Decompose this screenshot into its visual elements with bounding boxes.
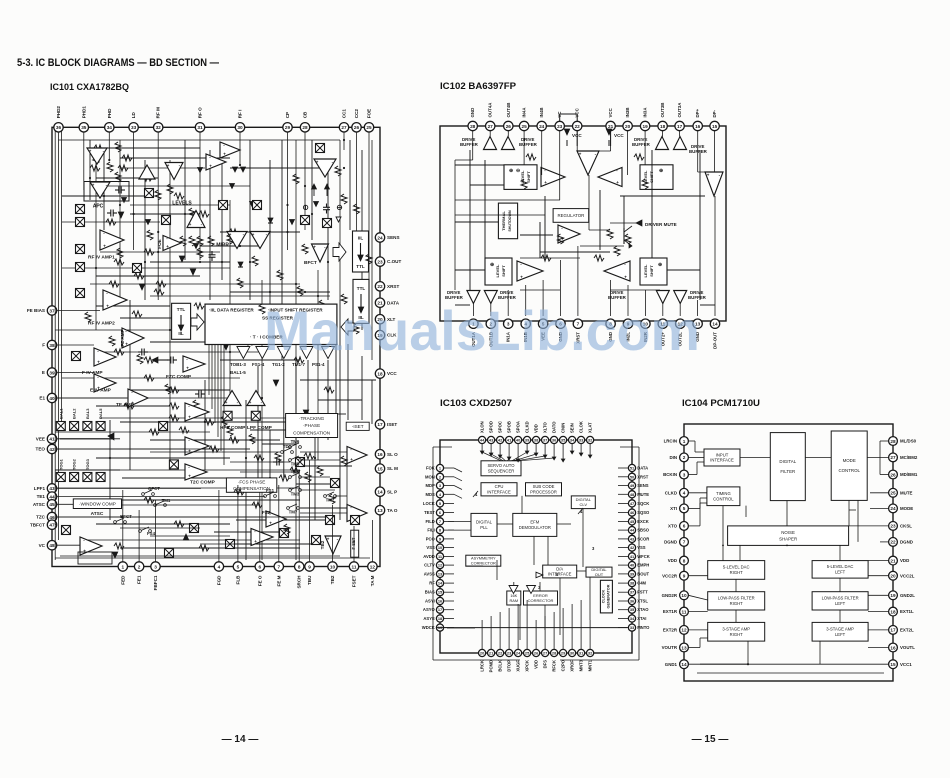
svg-text:3-STAGE AMP: 3-STAGE AMP: [826, 626, 854, 631]
pad xbox fset: [351, 516, 360, 525]
svg-text:TTL: TTL: [356, 264, 365, 269]
svg-text:SL M: SL M: [387, 466, 398, 471]
svg-text:14: 14: [377, 490, 383, 495]
svg-text:CLOCK: CLOCK: [602, 589, 606, 603]
svg-text:36: 36: [56, 125, 62, 130]
svg-text:1: 1: [121, 564, 124, 569]
svg-text:LEFT: LEFT: [835, 570, 846, 575]
svg-text:LEVELS: LEVELS: [172, 201, 192, 207]
svg-text:SHUTDOWN: SHUTDOWN: [508, 210, 512, 232]
svg-text:BIAS: BIAS: [425, 590, 435, 595]
svg-text:CC2: CC2: [354, 109, 359, 119]
IC103 pin 32 XLAT: [587, 422, 594, 444]
svg-text:FILD: FILD: [425, 519, 434, 524]
IC102 pin 25 IN4A: [519, 107, 528, 131]
svg-text:XTI: XTI: [670, 506, 677, 511]
svg-text:FOE: FOE: [367, 109, 372, 118]
svg-text:IN4A: IN4A: [522, 107, 527, 118]
register output labels: [230, 362, 325, 375]
pad xbox td1: [296, 458, 305, 467]
IC102 pin 4 IN1B: [521, 319, 530, 342]
svg-text:TEST: TEST: [424, 510, 435, 515]
VCC label right: [606, 129, 624, 146]
svg-text:LOW-PASS FILTER: LOW-PASS FILTER: [822, 596, 859, 601]
svg-text:RAM: RAM: [509, 598, 518, 603]
svg-text:F: F: [42, 343, 45, 348]
svg-text:27: 27: [543, 651, 547, 656]
svg-text:BCLK: BCLK: [498, 660, 503, 672]
op-amp APC upper: [87, 148, 107, 164]
svg-text:IC104 PCM1710U: IC104 PCM1710U: [682, 398, 760, 409]
op-amp T2C COMP: [185, 464, 207, 480]
pad xbox mid: [145, 189, 154, 198]
svg-text:VC: VC: [39, 543, 46, 548]
IC104 pin 14 GND1: [665, 660, 689, 669]
IC101 pin 10 TB2: [328, 562, 337, 584]
svg-text:2: 2: [683, 455, 686, 460]
switch BFCT low: [142, 486, 161, 495]
IC101 pin 12 TA M: [368, 562, 377, 586]
svg-text:RIGHT: RIGHT: [730, 570, 743, 575]
svg-text:FBFC1: FBFC1: [153, 575, 158, 590]
svg-text:11: 11: [352, 564, 357, 569]
svg-text:FZC COMP: FZC COMP: [166, 374, 192, 380]
IC103 pin 6 TEST: [424, 509, 444, 516]
svg-text:BCKIN: BCKIN: [663, 472, 677, 477]
IC102 opamp left-top: [541, 168, 565, 187]
svg-text:T2C COMP: T2C COMP: [190, 480, 216, 486]
svg-text:ISET: ISET: [387, 422, 397, 427]
IC104 pin 27 MC/BM2: [889, 453, 918, 462]
switch TM1: [154, 498, 171, 506]
resistor midlow3: [179, 427, 189, 433]
svg-text:12: 12: [681, 628, 687, 633]
svg-text:FE O: FE O: [257, 575, 262, 586]
IC103 pin 34 SEIN: [569, 423, 576, 443]
svg-text:XTO: XTO: [668, 524, 678, 529]
IC104 pin 2 DIN: [669, 453, 688, 462]
svg-text:TEO: TEO: [36, 447, 46, 452]
svg-text:XPCK: XPCK: [525, 660, 530, 672]
svg-text:+: +: [167, 163, 170, 168]
svg-text:10: 10: [681, 593, 687, 598]
IC104 block LOW-PASS FILTER RIGHT: [708, 592, 765, 610]
svg-text:BAL3: BAL3: [85, 408, 90, 419]
svg-text:LRCIN: LRCIN: [664, 439, 677, 444]
svg-text:7: 7: [683, 540, 686, 545]
diode CB a: [312, 184, 317, 196]
svg-text:·WINDOW COMP: ·WINDOW COMP: [79, 501, 116, 506]
svg-text:FS2: FS2: [262, 510, 271, 515]
IC103 pin 27 DFS: [542, 649, 549, 668]
svg-text:DIGITAL: DIGITAL: [779, 459, 796, 464]
svg-text:SL O: SL O: [387, 452, 398, 457]
svg-text:32: 32: [156, 125, 162, 130]
pad xbox lower2: [190, 524, 199, 533]
svg-text:SHAPER: SHAPER: [779, 536, 797, 541]
IC104 pin 1 LRCIN: [664, 437, 689, 446]
IC102 opamp left-bottom: [517, 261, 543, 281]
block arrow into register right: [341, 319, 354, 335]
svg-text:VEE: VEE: [36, 436, 45, 441]
IC102 pin 11 OUT2+: [658, 319, 667, 346]
IC104 pin 5 XTI: [670, 504, 688, 513]
IC104 pin 17 EXT2L: [889, 626, 914, 635]
IC104 junction dots: [722, 545, 788, 666]
svg-text:SL P: SL P: [387, 489, 397, 494]
IC102 regulator box: [553, 209, 589, 223]
svg-text:⊕: ⊕: [659, 168, 663, 174]
svg-text:NOISE: NOISE: [781, 530, 795, 535]
capacitor td1: [273, 459, 283, 466]
svg-text:DFS: DFS: [543, 660, 548, 669]
svg-text:5: 5: [237, 564, 240, 569]
svg-text:BFCT: BFCT: [120, 514, 132, 519]
IC103 block SERVO AUTO SEQUENCER: [481, 461, 521, 476]
phase circle CB1: [303, 205, 307, 209]
label drive buffer BL2: [498, 290, 517, 300]
svg-text:INTERFACE: INTERFACE: [710, 458, 734, 463]
svg-text:VCC1: VCC1: [900, 662, 912, 667]
svg-text:CONTROL: CONTROL: [713, 497, 734, 502]
IC101 left edge wires: [55, 311, 327, 546]
svg-text:13: 13: [377, 508, 383, 513]
IC103 pin 13 AVSS: [424, 570, 444, 577]
IC103 pin 43 SPOD: [488, 421, 495, 443]
svg-text:RF IV AMP1: RF IV AMP1: [88, 255, 115, 261]
svg-text:+: +: [313, 245, 316, 250]
IC101 pin 47 TBFCT: [30, 520, 57, 529]
IC103 block DIGITAL PLL: [471, 513, 497, 536]
IC102 pin 2 OUT1B: [486, 319, 495, 347]
svg-text:48: 48: [49, 543, 55, 548]
pad xbox hpfcomp side: [159, 422, 168, 431]
svg-text:4: 4: [683, 491, 686, 496]
svg-text:11: 11: [682, 609, 687, 614]
IC103 pin 20 LRCK: [479, 649, 486, 671]
IC102 pin 14 DP-OUT: [710, 319, 719, 349]
IC104 pin 11 EXT1R: [663, 607, 689, 616]
svg-text:DP-OUT: DP-OUT: [713, 332, 718, 349]
IC104 pin 22 DGND: [889, 538, 913, 547]
IC103 pin 50 XRST: [628, 473, 648, 480]
svg-text:+: +: [103, 243, 106, 248]
resistor RF2 fb: [109, 281, 119, 287]
svg-text:15: 15: [712, 124, 718, 129]
IC104 pin 7 DGND: [664, 538, 688, 547]
IC102 extra wires: [455, 150, 715, 305]
pad xbox CB2: [323, 219, 332, 228]
IC104 pin 20 VCC2L: [889, 571, 915, 580]
block data register / input shift register: [205, 304, 337, 344]
svg-text:3: 3: [683, 472, 686, 477]
svg-text:22: 22: [377, 284, 383, 289]
label drive buffer TR1: [632, 137, 651, 147]
svg-text:27: 27: [341, 125, 347, 130]
IC104 block MODE CONTROL: [831, 431, 867, 500]
svg-text:IC103 CXD2507: IC103 CXD2507: [440, 398, 512, 409]
IC102 output triangle right: [705, 172, 723, 196]
op-amp FOE comp: [163, 236, 181, 251]
svg-text:RF O: RF O: [198, 107, 203, 118]
pad xbox L6: [72, 352, 81, 361]
svg-text:ML/DS0: ML/DS0: [900, 439, 917, 444]
svg-text:E: E: [42, 370, 45, 375]
IC104 pin 28 ML/DS0: [889, 437, 917, 446]
op-amp SL O out: [347, 447, 367, 464]
IC101 pin 6 FE O: [255, 562, 264, 586]
capacitor F amp in: [138, 349, 148, 356]
IC102 opamp right-bottom: [604, 261, 630, 281]
IC104 pin 26 MD/BM1: [889, 470, 918, 479]
label drive buffer TL2: [519, 137, 538, 147]
op-amp RF IV AMP1: [100, 230, 124, 250]
IC102 level shift box right-bottom: [640, 258, 667, 285]
svg-text:— 15 —: — 15 —: [692, 734, 729, 745]
svg-text:FS1: FS1: [266, 488, 275, 493]
svg-text:19: 19: [642, 124, 648, 129]
IC103 pin 5 LOCK: [423, 500, 444, 507]
IC101 extra diodes and arrows: [122, 168, 319, 417]
IC102 level shift box left-bottom: [485, 258, 512, 285]
IC103 pin 47 SQCK: [628, 500, 649, 507]
IC102 pin 19 IN3A: [640, 107, 649, 131]
svg-text:7: 7: [277, 564, 280, 569]
svg-text:INTERFACE: INTERFACE: [487, 490, 511, 495]
svg-text:+: +: [209, 163, 212, 168]
svg-text:DIGITAL: DIGITAL: [476, 520, 493, 525]
pad xbox LEVELS: [162, 216, 171, 225]
svg-text:CLKD: CLKD: [665, 490, 677, 495]
svg-text:TOG3: TOG3: [85, 458, 90, 470]
svg-text:FGD: FGD: [216, 575, 221, 585]
IC103 pin 28 RFCK: [551, 649, 558, 671]
svg-text:APC: APC: [93, 204, 104, 210]
svg-text:50: 50: [630, 474, 634, 479]
svg-text:7: 7: [439, 519, 441, 524]
svg-text:5-LEVEL DAC: 5-LEVEL DAC: [827, 564, 854, 569]
svg-text:31: 31: [197, 125, 203, 130]
IC104 block TIMING CONTROL: [707, 487, 740, 506]
IC102 thermal shutdown box: [498, 203, 517, 239]
svg-text:28: 28: [890, 439, 896, 444]
switch FS4: [139, 527, 156, 536]
svg-text:34: 34: [107, 125, 113, 130]
IC102 pin 27 OUT4A: [486, 102, 495, 131]
IC104 pin 12 EXT2R: [663, 626, 689, 635]
pad xbox LPF: [251, 411, 260, 420]
svg-text:13: 13: [681, 645, 687, 650]
IC103 pin 33 MNTO: [628, 624, 650, 631]
svg-text:+: +: [186, 365, 189, 370]
open arrow down CB: [336, 217, 341, 222]
svg-text:BAL1-5: BAL1-5: [230, 370, 246, 375]
op-amp mid 2: [206, 154, 226, 170]
pad xbox t2c: [169, 460, 178, 469]
svg-text:1: 1: [683, 439, 686, 444]
svg-text:DGND: DGND: [664, 540, 677, 545]
IC103 pin 24 XUGF: [515, 649, 522, 671]
svg-text:IIL: IIL: [358, 236, 364, 241]
svg-text:33: 33: [131, 125, 137, 130]
pad xbox slm: [331, 479, 340, 488]
svg-text:OUT3B: OUT3B: [660, 103, 665, 118]
svg-text:CKSL: CKSL: [900, 524, 912, 529]
svg-text:30: 30: [237, 125, 243, 130]
svg-text:+: +: [166, 244, 169, 249]
IC104 block LOW-PASS FILTER LEFT: [812, 592, 868, 610]
IC101 pin 7 FE M: [274, 562, 283, 587]
pad xbox L1: [76, 205, 85, 214]
IC103 pin 36 XTSL: [628, 597, 648, 604]
svg-text:DAL5: DAL5: [98, 408, 103, 419]
IC104 pin 19 GND2L: [889, 591, 916, 600]
svg-text:FOK: FOK: [426, 466, 435, 471]
svg-text:PHD: PHD: [107, 108, 112, 118]
IC101 pin 32 RF M: [154, 107, 163, 132]
svg-text:F IV AMP: F IV AMP: [82, 370, 103, 376]
svg-text:TM2: TM2: [326, 498, 335, 503]
svg-text:MUTE: MUTE: [900, 490, 913, 495]
IC101 pin 37 FE BIAS: [27, 306, 57, 315]
svg-text:MDP: MDP: [425, 483, 435, 488]
IC101 wire horizontal rails: [55, 140, 372, 560]
svg-text:LEFT: LEFT: [835, 632, 846, 637]
svg-text:·FCS PHASE: ·FCS PHASE: [238, 480, 266, 485]
switch TM7: [287, 504, 300, 515]
label drive buffer BR1: [608, 290, 627, 300]
IC102 pin 24 IN4B: [537, 107, 546, 130]
IC101 pin 34 PHD: [105, 108, 114, 132]
IC103 D/A feed arrows: [509, 586, 536, 594]
svg-text:+: +: [544, 180, 547, 185]
svg-text:40: 40: [49, 396, 55, 401]
svg-text:FILI: FILI: [427, 528, 434, 533]
svg-text:LPF1: LPF1: [34, 486, 46, 491]
svg-text:16: 16: [377, 452, 383, 457]
svg-text:CORRECTOR: CORRECTOR: [528, 598, 554, 603]
capacitor LEVELS: [190, 251, 215, 275]
svg-text:37: 37: [543, 438, 547, 443]
resistor vc: [114, 543, 124, 549]
svg-text:FE AMP: FE AMP: [120, 329, 125, 346]
pad xbox lower3: [165, 549, 174, 558]
svg-text:SENS: SENS: [387, 235, 400, 240]
svg-text:35: 35: [81, 125, 87, 130]
IC103 pin 33 CLOK: [578, 421, 585, 443]
IC101 junction dots: [95, 139, 345, 399]
IC103 pin 48 MUTE: [628, 491, 649, 498]
svg-text:5: 5: [683, 506, 686, 511]
svg-text:COMPENSATION: COMPENSATION: [293, 430, 330, 435]
svg-text:TBFCT: TBFCT: [30, 522, 45, 527]
switch TM2: [324, 492, 337, 503]
pad xbox lower1: [226, 540, 235, 549]
IC104 pin 13 VOUTR: [662, 643, 689, 652]
svg-text:GND2L: GND2L: [900, 593, 915, 598]
svg-text:24: 24: [890, 506, 896, 511]
IC102 pin 8 GND: [606, 319, 615, 342]
svg-text:-ISET: -ISET: [352, 424, 364, 429]
pad xbox RF2 in: [133, 264, 142, 273]
svg-text:CPU: CPU: [495, 484, 504, 489]
IC103 pin 16 ASYI: [425, 597, 444, 604]
arrow vc: [112, 534, 189, 558]
block TTL/IIL right upper: [353, 231, 369, 272]
IC101 outline: [52, 127, 380, 566]
IC101 extra interconnect wires: [62, 140, 362, 560]
IC103 pin 44 XLON: [479, 421, 486, 443]
svg-text:DIN: DIN: [669, 455, 677, 460]
svg-text:RF IV AMP2: RF IV AMP2: [88, 321, 115, 327]
svg-text:44: 44: [49, 494, 55, 499]
IC103 pin 45 EXCK: [628, 518, 648, 525]
IC103 pin 41 WFCK: [628, 553, 649, 560]
IC103 pin 40 SPOA: [515, 421, 522, 443]
IC101 pin 26 CC2: [352, 109, 361, 132]
svg-text:SPOD: SPOD: [489, 421, 494, 433]
svg-text:·PHASE: ·PHASE: [303, 423, 320, 428]
IC101 pin 9 TBU: [305, 562, 314, 585]
IC103 pin 2 MON: [425, 473, 444, 480]
svg-text:DRIVER MUTE: DRIVER MUTE: [645, 222, 677, 227]
svg-text:+: +: [269, 520, 272, 525]
xbox row TOG: [56, 458, 105, 481]
pad xbox lower4: [280, 529, 289, 538]
IC101 pin 31 RF O: [195, 107, 204, 132]
IC101 pin 41 VEE: [36, 434, 57, 443]
svg-text:25: 25: [890, 491, 896, 496]
svg-text:CLOK: CLOK: [579, 421, 584, 433]
svg-text:+: +: [89, 149, 92, 154]
switch TM5: [289, 456, 302, 467]
svg-text:TTL: TTL: [357, 286, 366, 291]
svg-text:LOW-PASS FILTER: LOW-PASS FILTER: [718, 596, 755, 601]
svg-text:14: 14: [712, 322, 718, 327]
op-amp MIRR B: [250, 232, 270, 249]
svg-text:XTAI: XTAI: [637, 616, 646, 621]
IC101 pin 3 FBFC1: [151, 562, 160, 591]
svg-text:FED: FED: [120, 575, 125, 585]
label drive buffer TL1: [460, 137, 479, 147]
svg-text:PROCESSOR: PROCESSOR: [530, 490, 557, 495]
svg-text:17: 17: [677, 124, 683, 129]
diode pair top: [233, 167, 246, 172]
svg-text:18: 18: [890, 609, 896, 614]
svg-text:TIMING: TIMING: [716, 491, 731, 496]
svg-text:FS4: FS4: [147, 531, 156, 536]
IC102 mute transistor: [624, 226, 632, 248]
svg-text:+: +: [707, 173, 710, 178]
svg-text:EXT2R: EXT2R: [663, 628, 678, 633]
IC103 pin 17 ASYO: [423, 606, 444, 613]
IC104 pin 16 VOUTL: [889, 643, 916, 652]
resistor CC right: [335, 166, 341, 176]
svg-text:RFCK: RFCK: [552, 660, 557, 672]
svg-text:IIL: IIL: [178, 331, 184, 336]
svg-text:EXT2L: EXT2L: [900, 628, 914, 633]
svg-text:TOB1-3: TOB1-3: [230, 362, 246, 367]
svg-text:PHD1: PHD1: [81, 106, 86, 119]
svg-text:SEIN: SEIN: [570, 423, 575, 433]
IC103 pin 38 C4M: [628, 580, 646, 587]
op-amp mid-low 1: [185, 403, 209, 421]
resistor APC 2: [115, 142, 121, 152]
resistor APC 1: [107, 162, 113, 172]
svg-text:LEFT: LEFT: [835, 601, 846, 606]
svg-text:LEVEL: LEVEL: [643, 264, 648, 277]
svg-text:TA M: TA M: [370, 575, 375, 586]
